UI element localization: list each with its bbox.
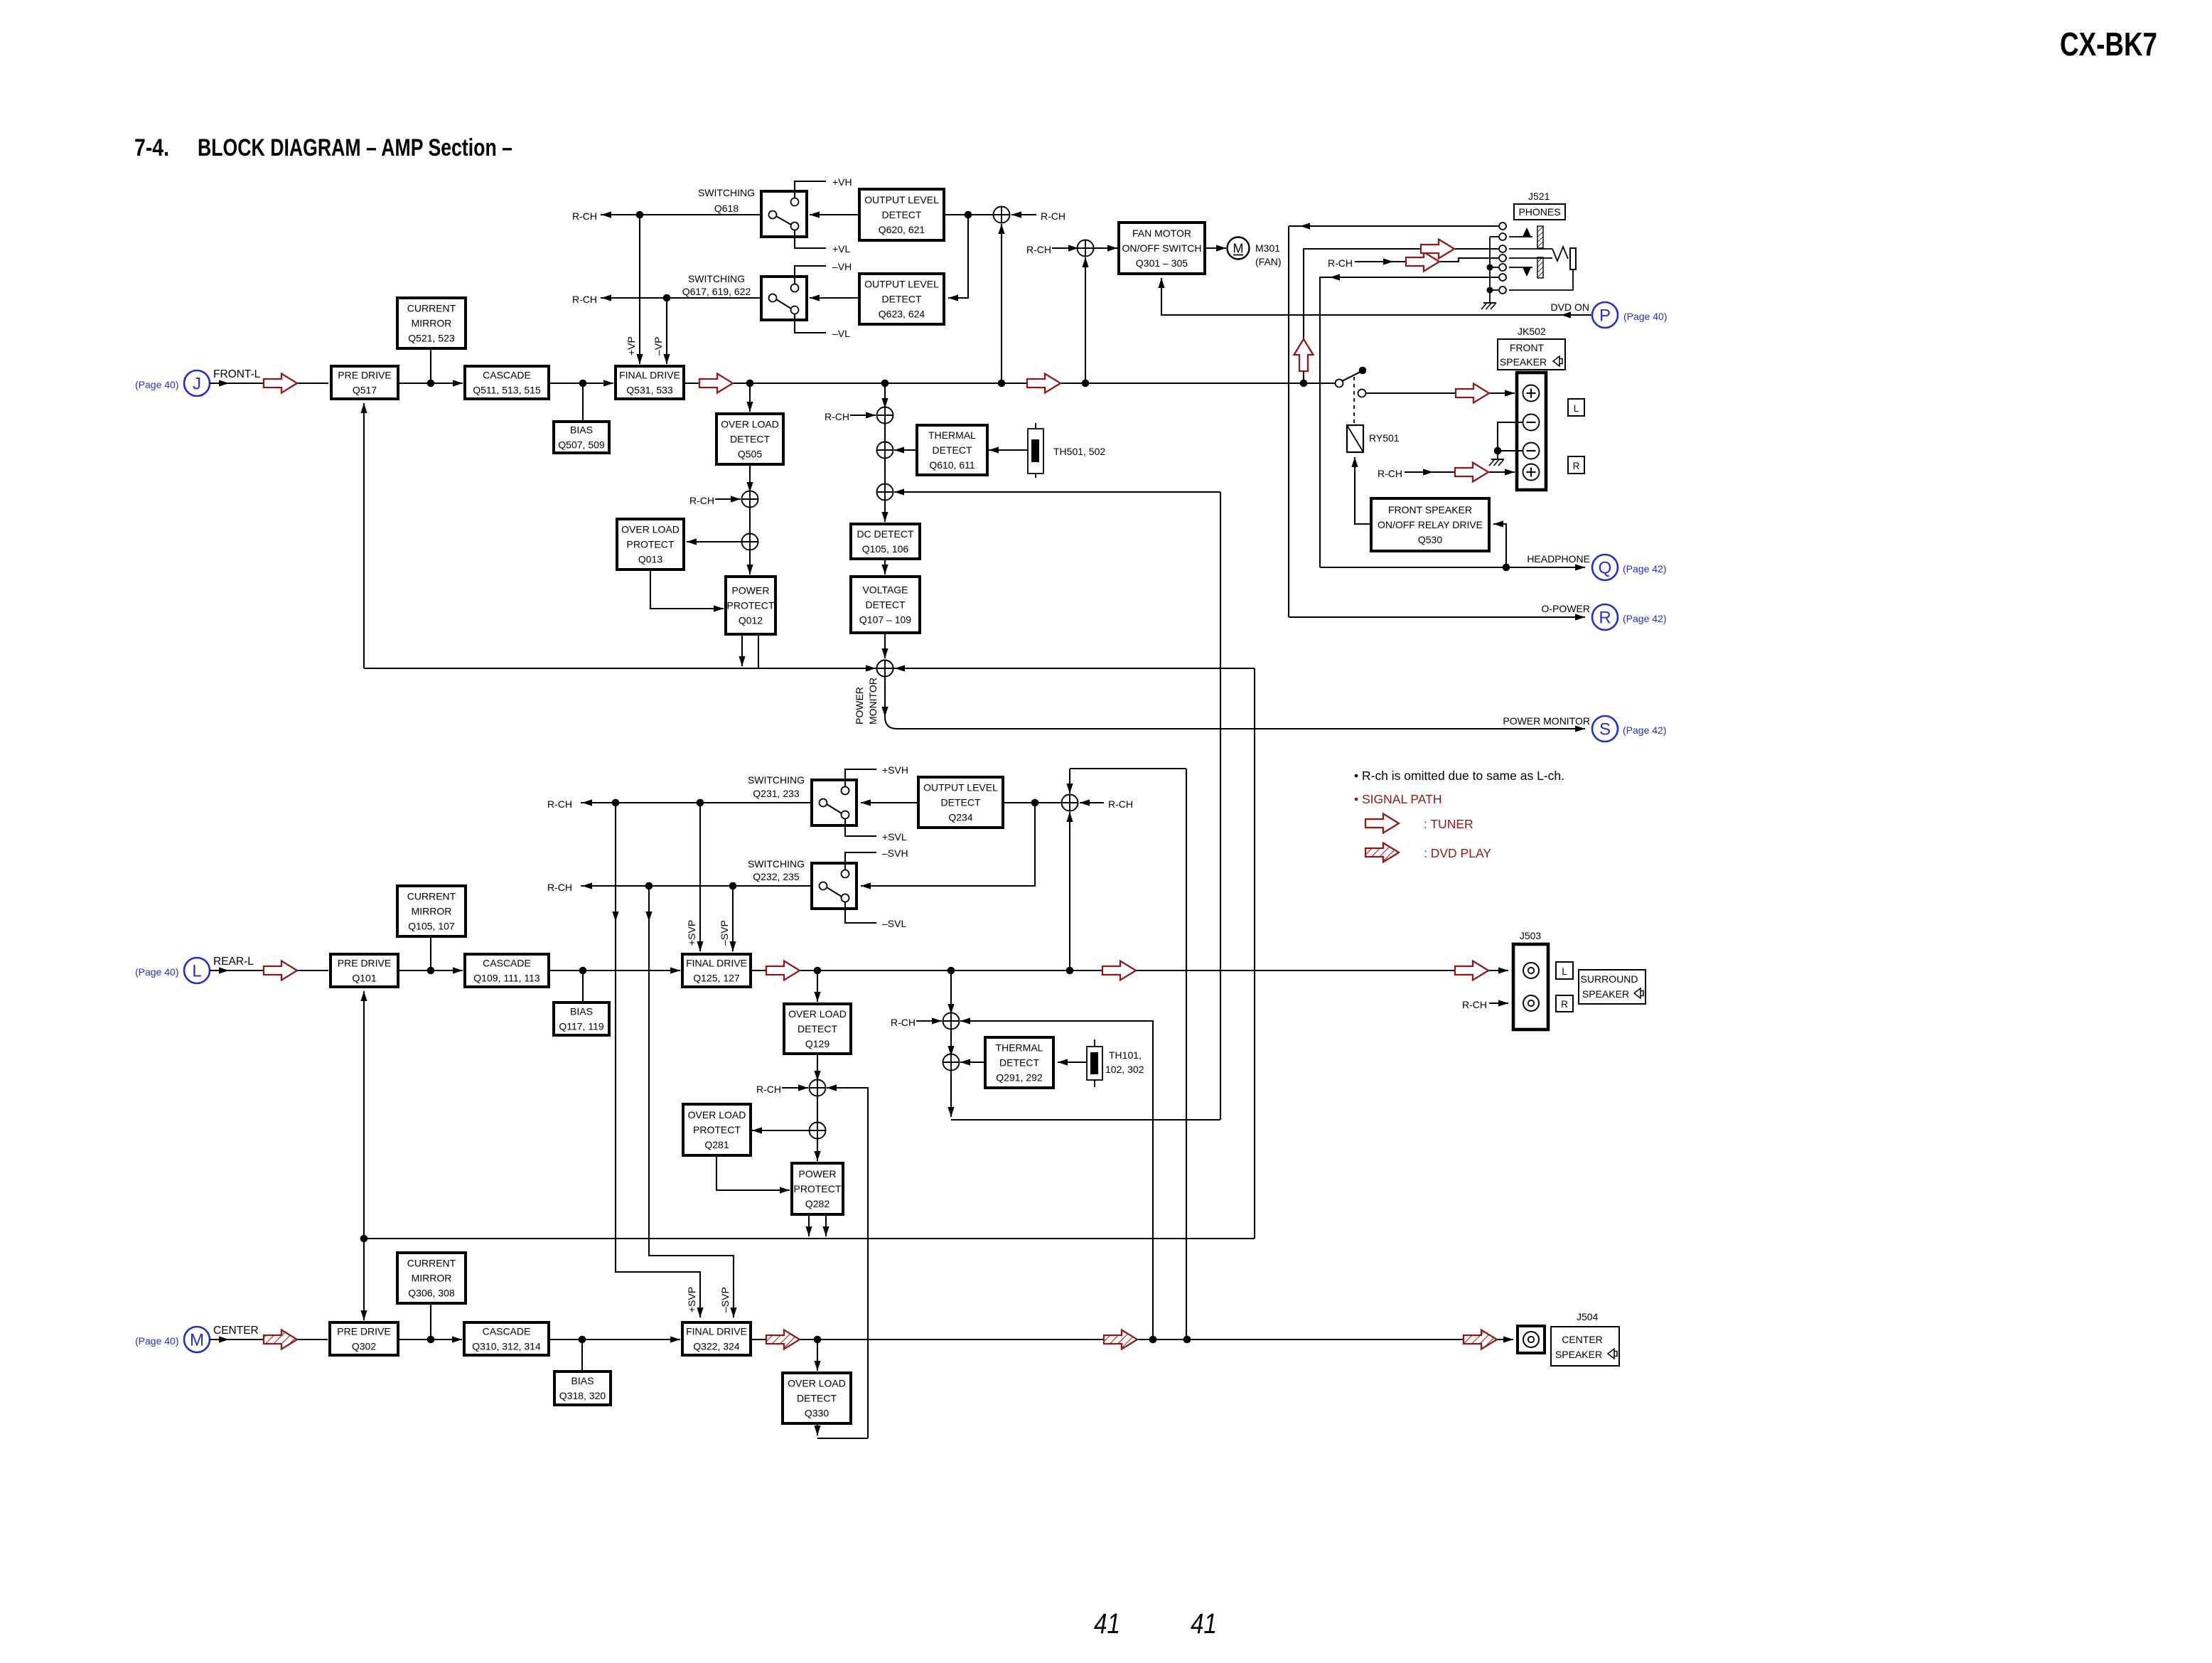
wire sum node down to main line xyxy=(998,224,1004,383)
svg-text:PRE DRIVE: PRE DRIVE xyxy=(337,1326,390,1337)
ground at JK502 xyxy=(1489,451,1504,466)
svg-text:CENTER: CENTER xyxy=(1562,1334,1603,1345)
svg-text:M: M xyxy=(1233,242,1244,256)
svg-text:Q618: Q618 xyxy=(714,203,739,214)
svg-text:41: 41 xyxy=(1094,1608,1120,1640)
svg-text:Q531, 533: Q531, 533 xyxy=(626,385,673,396)
svg-text:Q521, 523: Q521, 523 xyxy=(408,333,455,344)
svg-text:SWITCHING: SWITCHING xyxy=(748,774,805,786)
wire -SV rail to switch Q232 xyxy=(581,882,820,889)
block BIAS Q507, 509 xyxy=(554,422,609,453)
svg-text:L: L xyxy=(1562,966,1567,977)
svg-text:Q507, 509: Q507, 509 xyxy=(558,439,605,451)
wire FAN MOTOR to motor M301 xyxy=(1205,245,1226,251)
block THERMAL DETECT Q291, 292 xyxy=(985,1037,1053,1088)
wire Q012 left output down xyxy=(739,634,745,666)
block BIAS Q318, 320 xyxy=(554,1371,611,1405)
wire Q330 loop into rear overload sum xyxy=(827,1084,868,1438)
block OVER LOAD DETECT Q505 xyxy=(716,414,783,464)
junction dot to OVER LOAD DETECT Q505 xyxy=(746,380,754,387)
junction dot center +SVP tap xyxy=(612,799,620,807)
wire ground rail to contact7 xyxy=(1490,289,1498,291)
signal path arrow (dvd) mid center line xyxy=(1104,1330,1137,1349)
svg-text:Q617, 619, 622: Q617, 619, 622 xyxy=(682,286,751,297)
connector J503 xyxy=(1513,944,1548,1030)
wire node down to OLD Q623 xyxy=(948,215,968,298)
sum node front R-CH detect xyxy=(877,407,893,424)
wire rear thermal sum down to loop bus xyxy=(947,1070,954,1117)
svg-text:CASCADE: CASCADE xyxy=(483,370,531,381)
svg-text:Q234: Q234 xyxy=(948,812,972,823)
svg-text:Q109, 111, 113: Q109, 111, 113 xyxy=(473,973,540,984)
wire rear +SVP down to FINAL DRIVE Q125 xyxy=(697,803,703,951)
speaker switch throw contact xyxy=(1358,390,1366,397)
wire speaker switch to JK502 L+ xyxy=(1366,390,1515,396)
svg-text:J: J xyxy=(193,375,201,394)
block OVER LOAD DETECT Q330 xyxy=(783,1373,851,1423)
junction dot after CASCADE Q511 xyxy=(579,380,587,387)
svg-text:L: L xyxy=(192,962,201,981)
signal path arrow (tuner) to front speaker R xyxy=(1455,463,1488,482)
wire fan sum to FAN MOTOR box xyxy=(1094,245,1117,251)
svg-text:SWITCHING: SWITCHING xyxy=(688,273,745,284)
label box FRONT SPEAKER xyxy=(1498,339,1565,370)
svg-text:• R-ch is omitted due to same: • R-ch is omitted due to same as L-ch. xyxy=(1354,769,1564,783)
svg-text:Q117, 119: Q117, 119 xyxy=(559,1021,604,1032)
wire DVD ON to FAN MOTOR xyxy=(1158,278,1592,319)
svg-text:(Page 40): (Page 40) xyxy=(135,379,178,390)
svg-text:JK502: JK502 xyxy=(1518,326,1546,337)
svg-text:Q310, 312, 314: Q310, 312, 314 xyxy=(472,1341,541,1352)
svg-text:P: P xyxy=(1599,306,1611,326)
wire OLD Q234 input node xyxy=(1003,802,1062,803)
switch Q618 lever xyxy=(776,216,791,225)
block OUTPUT LEVEL DETECT Q234 xyxy=(918,777,1003,828)
svg-text:J503: J503 xyxy=(1520,930,1542,941)
svg-text:DETECT: DETECT xyxy=(882,209,922,220)
wire Q282 left output down xyxy=(805,1214,812,1236)
wire thermistor TH501 to THERMAL DETECT xyxy=(989,447,1028,453)
svg-text:: DVD PLAY: : DVD PLAY xyxy=(1424,846,1491,860)
svg-text:(Page 40): (Page 40) xyxy=(1623,311,1667,322)
svg-text:–SVL: –SVL xyxy=(882,918,906,929)
rear thermal loop bus wire xyxy=(951,1119,1220,1121)
svg-text:THERMAL: THERMAL xyxy=(996,1042,1043,1054)
svg-text:+SVP: +SVP xyxy=(686,1287,697,1312)
svg-text:J504: J504 xyxy=(1577,1311,1599,1322)
wire R-CH to fan sum node xyxy=(1052,245,1078,251)
svg-text:HEADPHONE: HEADPHONE xyxy=(1527,553,1590,565)
switch Q232 lever xyxy=(827,887,842,897)
svg-text:TH101,: TH101, xyxy=(1109,1049,1142,1061)
wire R-CH into rear overload sum xyxy=(782,1084,808,1091)
wire front sum3 to DC DETECT xyxy=(881,500,888,522)
svg-text:7-4.: 7-4. xyxy=(134,134,169,161)
svg-text:OUTPUT LEVEL: OUTPUT LEVEL xyxy=(864,194,939,205)
block FRONT SPEAKER ON/OFF RELAY DRIVE Q530 xyxy=(1371,498,1489,551)
block FINAL DRIVE Q125, 127 xyxy=(682,954,751,987)
svg-text:R-CH: R-CH xyxy=(689,495,714,506)
label POWER MONITOR (rotated) xyxy=(854,678,879,724)
wire thermistor TH101 to THERMAL DETECT xyxy=(1058,1059,1087,1065)
front feedback bus wire xyxy=(364,668,1255,669)
phones contact 1 xyxy=(1499,223,1506,230)
svg-text:BIAS: BIAS xyxy=(570,424,593,436)
svg-text:RY501: RY501 xyxy=(1369,432,1400,444)
wire ground rail to contact5 xyxy=(1490,267,1498,268)
wire R-CH into sum node xyxy=(1011,211,1036,218)
svg-text:Q231, 233: Q231, 233 xyxy=(753,788,800,799)
arrowhead into J504 xyxy=(1503,1336,1513,1342)
svg-text:FRONT SPEAKER: FRONT SPEAKER xyxy=(1388,504,1472,515)
wire headphone node to Q530 xyxy=(1493,520,1506,567)
label box CENTER SPEAKER xyxy=(1551,1327,1619,1366)
svg-text:DETECT: DETECT xyxy=(797,1393,837,1404)
switch box Q231 xyxy=(812,780,857,825)
phones contact 4 xyxy=(1499,255,1506,262)
signal path arrow (dvd) before J504 xyxy=(1464,1330,1497,1349)
svg-text:Q012: Q012 xyxy=(739,615,763,626)
wire -VP down to FINAL DRIVE xyxy=(663,298,670,364)
phones plug ring line xyxy=(1509,257,1552,259)
svg-text:PHONES: PHONES xyxy=(1518,206,1560,218)
signal path arrow (tuner) on FRONT-L wire xyxy=(264,374,297,393)
svg-text:MONITOR: MONITOR xyxy=(867,678,879,724)
svg-text:(Page 42): (Page 42) xyxy=(1623,563,1666,574)
svg-text:DETECT: DETECT xyxy=(882,294,922,305)
wire headphone line to node Q xyxy=(1320,564,1585,570)
signal path arrow (dvd) on CENTER wire xyxy=(264,1330,297,1349)
wire rear sum2 down to POWER PROTECT Q282 xyxy=(814,1138,820,1161)
wire R-CH into rear sum xyxy=(1080,799,1104,806)
svg-text:Q620, 621: Q620, 621 xyxy=(879,224,925,235)
wire phones sleeve path xyxy=(1509,270,1573,290)
svg-text:Q505: Q505 xyxy=(738,449,762,460)
wire PRE DRIVE Q302 to CASCADE xyxy=(398,1336,462,1342)
wire Q281 to POWER PROTECT Q282 xyxy=(716,1155,790,1194)
label box L (surround) xyxy=(1556,962,1573,979)
junction dot to front detect chain xyxy=(881,380,889,387)
svg-text:Q129: Q129 xyxy=(805,1038,829,1049)
svg-text:+VL: +VL xyxy=(832,243,851,255)
switch Q231 bottom contact xyxy=(842,811,849,819)
svg-text:Q: Q xyxy=(1599,559,1612,578)
svg-text:Q013: Q013 xyxy=(638,554,662,565)
svg-text:OVER LOAD: OVER LOAD xyxy=(721,419,779,430)
svg-text:–VH: –VH xyxy=(832,261,852,272)
svg-text:–SVP: –SVP xyxy=(719,1287,731,1312)
svg-text:DETECT: DETECT xyxy=(999,1057,1039,1069)
svg-text:SWITCHING: SWITCHING xyxy=(698,187,755,198)
svg-text:CASCADE: CASCADE xyxy=(483,1326,531,1337)
svg-text:R-CH: R-CH xyxy=(1026,244,1051,255)
junction dot after PRE DRIVE Q517 xyxy=(427,380,435,387)
svg-text:PRE DRIVE: PRE DRIVE xyxy=(338,958,391,969)
switch box Q232 xyxy=(812,863,857,909)
wire rear -SVP down to FINAL DRIVE Q125 xyxy=(729,886,736,951)
svg-text:L: L xyxy=(1574,403,1579,414)
svg-text:SURROUND: SURROUND xyxy=(1581,973,1638,985)
wire +SVH from switch Q231 xyxy=(845,769,876,787)
svg-text:ON/OFF RELAY DRIVE: ON/OFF RELAY DRIVE xyxy=(1378,519,1483,530)
wire main line down to OVER LOAD DETECT Q505 xyxy=(746,383,753,412)
terminal L- of JK502 xyxy=(1523,415,1540,431)
wire +VP down to FINAL DRIVE xyxy=(636,215,643,364)
svg-text:DETECT: DETECT xyxy=(798,1023,837,1034)
svg-text:R-CH: R-CH xyxy=(825,411,849,422)
phones NC arrow up xyxy=(1509,228,1532,237)
wire contact2 to ground rail xyxy=(1490,236,1498,237)
svg-text:Q530: Q530 xyxy=(1418,534,1442,545)
svg-text:Q291, 292: Q291, 292 xyxy=(996,1072,1043,1084)
junction dot after CASCADE Q109 xyxy=(579,967,587,975)
wire power monitor to node S xyxy=(885,717,1585,729)
svg-text:R-CH: R-CH xyxy=(891,1017,916,1028)
wire OUTPUT LEVEL DETECT Q623 to switch Q617 xyxy=(810,294,859,301)
node M (CENTER input) xyxy=(184,1327,210,1352)
wire center tap to rear sum top xyxy=(1066,769,1186,793)
page title xyxy=(134,134,512,161)
junction dot to rear thermal chain xyxy=(947,967,955,975)
thermistor TH501, 502 xyxy=(1028,423,1043,478)
sum node rear thermal out xyxy=(943,1054,960,1071)
wire R-CH to phones contact4 xyxy=(1355,258,1498,265)
switch Q232 pole contact xyxy=(820,882,827,890)
wire OLD Q620 input node xyxy=(944,214,994,215)
svg-text:FINAL DRIVE: FINAL DRIVE xyxy=(686,1326,747,1337)
svg-text:Q623, 624: Q623, 624 xyxy=(879,309,925,320)
signal path arrow (tuner) before J503 xyxy=(1455,961,1488,980)
wire front sum2 to sum3 xyxy=(884,458,886,484)
sum node front upper R-CH xyxy=(994,207,1010,223)
svg-text:R: R xyxy=(1599,609,1611,628)
svg-text:Q330: Q330 xyxy=(805,1408,829,1419)
svg-text:OUTPUT LEVEL: OUTPUT LEVEL xyxy=(864,279,939,290)
svg-text:FRONT-L: FRONT-L xyxy=(213,368,261,380)
wire VOLTAGE DETECT to power monitor sum xyxy=(881,633,888,658)
signal path arrow (tuner) mid front line xyxy=(1027,374,1061,393)
svg-text:VOLTAGE: VOLTAGE xyxy=(862,584,908,596)
block VOLTAGE DETECT Q107-109 xyxy=(851,577,920,633)
svg-text:CASCADE: CASCADE xyxy=(483,958,531,969)
wire JK502 minus terminals tie xyxy=(1498,422,1523,451)
switch box Q618 xyxy=(761,191,807,237)
phones plug tip line xyxy=(1509,248,1552,250)
wire Q012 right output down xyxy=(758,634,759,668)
svg-text:R-CH: R-CH xyxy=(547,798,572,810)
switch Q232 top contact xyxy=(842,870,849,878)
block OUTPUT LEVEL DETECT Q620, 621 xyxy=(859,189,944,240)
junction dot center tap to rear sum xyxy=(1183,1336,1191,1344)
wire R-CH into front detect sum xyxy=(850,412,876,418)
wire OLD Q234 to switch Q231 xyxy=(861,799,918,806)
svg-text:R: R xyxy=(1561,999,1568,1010)
label box R (surround) xyxy=(1556,995,1573,1012)
svg-text:BIAS: BIAS xyxy=(570,1006,593,1017)
wire O-POWER riser x1813 xyxy=(1288,226,1289,617)
wire CASCADE Q109 to FINAL DRIVE Q125 xyxy=(549,967,680,973)
junction dot OLD Q234 input node xyxy=(1031,799,1039,807)
svg-text:PROTECT: PROTECT xyxy=(693,1124,741,1135)
wire CASCADE Q310 to FINAL DRIVE Q322 xyxy=(549,1336,680,1342)
svg-text:REAR-L: REAR-L xyxy=(213,956,254,968)
junction dot after CASCADE Q310 xyxy=(579,1336,586,1344)
svg-text:Q306, 308: Q306, 308 xyxy=(408,1288,455,1299)
svg-text:OVER LOAD: OVER LOAD xyxy=(688,1109,746,1121)
wire rear feedback riser x1765 xyxy=(1254,668,1255,1239)
switch Q232 bottom contact xyxy=(842,894,849,902)
svg-text:+SVP: +SVP xyxy=(686,920,697,946)
svg-text:Q301 – 305: Q301 – 305 xyxy=(1136,257,1188,269)
wire feedback down to PRE DRIVE Q302 xyxy=(360,1239,367,1320)
svg-text:FAN MOTOR: FAN MOTOR xyxy=(1132,228,1191,239)
svg-text:+SVL: +SVL xyxy=(882,831,907,843)
wire rear sum down to main line xyxy=(1066,812,1073,970)
svg-text:CURRENT: CURRENT xyxy=(407,891,456,902)
switch Q231 top contact xyxy=(842,787,849,795)
rear feedback bus wire xyxy=(364,1238,1255,1239)
block CURRENT MIRROR Q306, 308 xyxy=(397,1253,466,1303)
svg-text:(Page 40): (Page 40) xyxy=(135,1335,178,1347)
junction dot center -SVP tap xyxy=(645,882,653,890)
svg-text:: TUNER: : TUNER xyxy=(1424,817,1473,831)
wire R- to ground rail xyxy=(1498,450,1523,451)
svg-text:41: 41 xyxy=(1191,1608,1217,1640)
block CASCADE Q310, 312, 314 xyxy=(464,1322,549,1355)
junction dot below front upper sum xyxy=(998,380,1006,387)
terminal R- of JK502 xyxy=(1523,443,1540,459)
svg-text:R: R xyxy=(1573,461,1580,471)
svg-text:DC DETECT: DC DETECT xyxy=(857,528,914,540)
node J (FRONT-L input) xyxy=(184,370,210,396)
svg-text:PROTECT: PROTECT xyxy=(794,1183,842,1194)
svg-text:CURRENT: CURRENT xyxy=(407,1258,456,1269)
svg-text:BIAS: BIAS xyxy=(571,1375,594,1386)
label box SURROUND SPEAKER xyxy=(1579,970,1645,1004)
svg-text:J521: J521 xyxy=(1528,191,1550,202)
wire Q234 node down to switch Q232 xyxy=(861,803,1035,889)
wire power monitor sum down xyxy=(881,676,888,717)
junction dot below rear sum Q234 xyxy=(1066,967,1074,975)
wire overload sum2 down to POWER PROTECT Q012 xyxy=(746,550,753,574)
phones contact 2 xyxy=(1499,233,1506,240)
svg-text:OVER LOAD: OVER LOAD xyxy=(788,1378,846,1389)
sum node rear overload out xyxy=(810,1123,826,1139)
label box PHONES xyxy=(1514,204,1565,220)
svg-text:R-CH: R-CH xyxy=(1108,798,1133,810)
signal path arrow (tuner) on REAR-L wire xyxy=(264,961,297,980)
junction dot ground rail c5 xyxy=(1487,264,1493,271)
svg-text:SPEAKER: SPEAKER xyxy=(1555,1349,1602,1360)
svg-text:(Page 42): (Page 42) xyxy=(1623,613,1666,624)
switch Q617 top contact xyxy=(791,284,799,292)
phones contact 6 xyxy=(1499,274,1506,281)
wire center -SVP drop xyxy=(645,886,736,1317)
jack J504 center xyxy=(1523,1332,1539,1347)
wire +V rail R-CH to switch Q618 xyxy=(601,211,769,218)
switch Q617 lever xyxy=(776,299,791,309)
wire Q282 right output down xyxy=(822,1214,829,1236)
sum node power monitor xyxy=(877,661,893,677)
phones hatch bar upper xyxy=(1537,226,1543,248)
wire R-CH to J503 R xyxy=(1489,1000,1508,1006)
svg-text:ON/OFF SWITCH: ON/OFF SWITCH xyxy=(1122,242,1202,254)
svg-text:Q105, 107: Q105, 107 xyxy=(408,921,455,932)
wire +VH from switch Q618 xyxy=(795,181,826,198)
junction dot to OVER LOAD DETECT Q129 xyxy=(814,967,822,975)
wire -SVL from switch Q232 xyxy=(845,902,876,924)
block THERMAL DETECT Q610, 611 xyxy=(917,425,987,475)
white mask for sum node PM xyxy=(877,661,893,677)
rear main output wire xyxy=(751,970,1508,971)
ground at phones jack xyxy=(1483,302,1496,304)
wire +VL from switch Q618 xyxy=(795,230,826,249)
svg-text:R-CH: R-CH xyxy=(1328,257,1353,269)
junction dot headphone/Q530 branch xyxy=(1503,564,1510,572)
sum node rear thermal R-CH xyxy=(943,1013,960,1030)
wire THERMAL DETECT to thermal sum xyxy=(894,447,917,453)
svg-text:PROTECT: PROTECT xyxy=(627,539,675,550)
svg-text:R-CH: R-CH xyxy=(572,294,597,305)
svg-text:Q610, 611: Q610, 611 xyxy=(929,459,975,471)
junction dot to OVER LOAD DETECT Q330 xyxy=(814,1336,822,1344)
switch Q231 pole contact xyxy=(820,799,827,807)
signal path arrow (tuner) on phones feed xyxy=(1421,240,1454,259)
switch Q618 pole contact xyxy=(769,211,777,219)
svg-text:+VP: +VP xyxy=(626,336,637,355)
signal path up arrow (tuner) on phones riser xyxy=(1294,339,1314,371)
svg-text:S: S xyxy=(1599,720,1611,739)
signal path arrow (tuner) after FINAL DRIVE Q125 xyxy=(766,961,800,980)
svg-text:Q511, 513, 515: Q511, 513, 515 xyxy=(473,385,541,396)
signal path arrow (tuner) to front speaker L xyxy=(1456,384,1489,403)
junction dot +VP tap xyxy=(636,211,644,219)
wire fan sum node down to main line xyxy=(1082,257,1088,383)
svg-text:CENTER: CENTER xyxy=(213,1325,259,1337)
wire L to PRE DRIVE Q101 xyxy=(210,967,328,973)
wire -VL from switch Q617 xyxy=(795,314,826,333)
wire +SV rail to switch Q231 xyxy=(581,799,820,806)
sum node rear upper R-CH xyxy=(1062,795,1078,811)
wire CASCADE to FINAL DRIVE xyxy=(549,380,613,386)
block POWER PROTECT Q282 xyxy=(792,1163,843,1214)
svg-text:MIRROR: MIRROR xyxy=(412,318,452,329)
wire rear thermal loop into front sum3 xyxy=(894,488,1220,495)
motor M301 (FAN) xyxy=(1228,237,1250,260)
speaker switch pole contact xyxy=(1336,380,1343,387)
wire rear overload sum1 to sum2 xyxy=(817,1096,818,1123)
arrowhead into J503 L xyxy=(1498,967,1508,973)
arrowhead into power monitor sum right xyxy=(895,665,905,671)
wire main line down to rear thermal sum xyxy=(947,970,954,1014)
wire Q129 to rear overload sum1 xyxy=(814,1054,820,1081)
svg-text:–SVH: –SVH xyxy=(882,847,908,859)
svg-text:(FAN): (FAN) xyxy=(1255,256,1282,267)
block OUTPUT LEVEL DETECT Q623, 624 xyxy=(859,274,944,324)
phones hatch bar lower xyxy=(1537,257,1543,278)
junction dot rear -SVP tap xyxy=(729,882,737,890)
wire down to BIAS Q117 xyxy=(582,970,584,1002)
svg-text:Q302: Q302 xyxy=(352,1341,376,1352)
svg-text:DETECT: DETECT xyxy=(730,434,770,445)
speaker switch lever xyxy=(1342,367,1366,381)
wire main line down to OVER LOAD DETECT Q129 xyxy=(814,970,820,1002)
wire CURRENT MIRROR Q105 to main line xyxy=(430,936,431,970)
block BIAS Q117, 119 xyxy=(554,1002,609,1035)
svg-text:POWER: POWER xyxy=(854,687,865,724)
wire main line down to front R-CH sum xyxy=(881,383,888,408)
svg-text:OUTPUT LEVEL: OUTPUT LEVEL xyxy=(923,782,998,793)
